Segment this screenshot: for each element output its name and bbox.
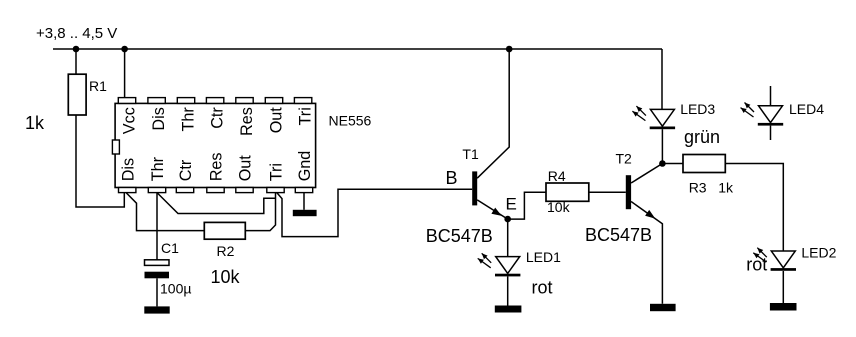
wire T2 emitter xyxy=(631,202,662,304)
svg-text:1k: 1k xyxy=(25,113,45,133)
wire Dis(bottom) down to R2 left xyxy=(126,193,204,231)
wire stub below LED4 xyxy=(770,126,772,140)
svg-text:10k: 10k xyxy=(211,267,241,287)
wire rail to Vcc pin xyxy=(124,49,126,98)
svg-text:Out: Out xyxy=(237,155,255,182)
svg-text:R3 1k: R3 1k xyxy=(689,179,734,195)
wire E node to R4 xyxy=(508,192,546,219)
ground symbol below T2 xyxy=(650,304,676,311)
svg-text:LED2: LED2 xyxy=(801,245,836,261)
svg-text:Tri: Tri xyxy=(297,107,315,125)
IC pin-1 notch marker xyxy=(112,140,119,154)
svg-text:Thr: Thr xyxy=(180,107,198,132)
wire R1 bottom to IC pin Dis (bottom row pin 1) xyxy=(76,115,124,207)
svg-text:rot: rot xyxy=(746,254,767,274)
wire Thr(bottom) link to Tri(bottom) xyxy=(157,193,276,214)
wire positive supply rail xyxy=(53,48,662,50)
ground symbol below LED1 xyxy=(495,306,522,313)
wire T1 collector xyxy=(477,49,509,178)
svg-text:LED3: LED3 xyxy=(680,101,715,117)
svg-text:Vcc: Vcc xyxy=(121,107,139,134)
svg-text:LED4: LED4 xyxy=(789,101,824,117)
svg-text:E: E xyxy=(506,195,517,214)
wire T1 emitter xyxy=(477,200,508,219)
svg-text:100µ: 100µ xyxy=(160,280,191,296)
IC bottom pin stub Dis xyxy=(119,188,136,193)
wire LED3 to T2 collector node xyxy=(661,129,663,163)
svg-text:Tri: Tri xyxy=(268,163,286,181)
capacitor C1 bottom plate xyxy=(145,272,170,279)
transistor T2 base bar xyxy=(626,175,631,209)
resistor R3 xyxy=(683,155,725,173)
IC bottom pin stub Tri xyxy=(267,188,284,193)
IC bottom pin stub Thr xyxy=(148,188,165,193)
svg-text:Ctr: Ctr xyxy=(177,159,195,181)
IC bottom pin stub Res xyxy=(207,188,224,193)
svg-text:rot: rot xyxy=(532,278,553,298)
led LED4 xyxy=(759,106,783,123)
svg-text:T2: T2 xyxy=(616,150,633,166)
wire LED2 to ground xyxy=(782,271,784,303)
IC top pin stub Ctr xyxy=(206,98,223,104)
ground symbol at IC Gnd pin xyxy=(293,210,317,216)
led LED1 xyxy=(496,257,520,274)
svg-text:T1: T1 xyxy=(462,146,479,162)
svg-text:BC547B: BC547B xyxy=(585,225,652,245)
IC bottom pin stub Out xyxy=(236,188,253,193)
wire C1 to ground xyxy=(156,278,158,306)
svg-text:BC547B: BC547B xyxy=(426,226,493,246)
svg-text:R1: R1 xyxy=(89,78,107,94)
wire R4 to T2 base xyxy=(589,191,626,193)
svg-text:C1: C1 xyxy=(161,240,179,256)
capacitor C1 top plate xyxy=(145,260,170,266)
IC top pin stub Tri xyxy=(294,98,311,104)
transistor T1 base bar xyxy=(472,171,477,205)
wire Tri(bottom) to T1 base xyxy=(277,189,472,236)
ground symbol below C1 xyxy=(144,306,169,313)
wire E node to LED1 xyxy=(507,219,509,256)
resistor R4 xyxy=(546,183,589,201)
svg-text:Dis: Dis xyxy=(119,158,137,181)
svg-text:B: B xyxy=(446,168,458,188)
svg-text:Dis: Dis xyxy=(150,107,168,130)
svg-text:Thr: Thr xyxy=(149,156,167,181)
resistor R1 xyxy=(68,74,86,115)
wire R3 to LED2 xyxy=(725,164,783,252)
svg-text:10k: 10k xyxy=(547,199,571,215)
svg-text:Out: Out xyxy=(268,107,286,134)
arrowhead T2 emitter xyxy=(645,210,655,219)
node junction dot R1/rail xyxy=(73,46,80,53)
wire Thr(bottom) to C1 xyxy=(156,193,158,260)
IC bottom pin stub Gnd xyxy=(295,188,312,193)
svg-text:+3,8 .. 4,5 V: +3,8 .. 4,5 V xyxy=(36,25,117,42)
svg-text:Ctr: Ctr xyxy=(209,107,227,129)
IC bottom pin stub Ctr xyxy=(176,188,193,193)
svg-text:grün: grün xyxy=(684,127,720,147)
op IC U1 NE556 body xyxy=(115,103,316,187)
IC top pin stub Dis xyxy=(148,98,165,104)
node junction dot Vcc/rail xyxy=(121,46,128,53)
wire LED1 to ground xyxy=(507,277,509,306)
arrowhead T1 emitter xyxy=(491,208,501,216)
svg-text:R2: R2 xyxy=(217,243,235,259)
svg-text:Res: Res xyxy=(238,107,256,136)
svg-text:NE556: NE556 xyxy=(329,113,372,129)
wire Tri(bottom) down to R2 right xyxy=(245,193,275,231)
led LED3 xyxy=(650,109,674,126)
node junction dot E node xyxy=(504,216,511,223)
IC top pin stub Thr xyxy=(177,98,194,104)
node junction dot T2 collector node xyxy=(659,160,666,167)
svg-text:R4: R4 xyxy=(548,168,566,184)
led LED2 xyxy=(771,251,795,268)
ground symbol below LED2 xyxy=(770,303,797,311)
wire rail drop to LED3 xyxy=(661,49,663,109)
svg-text:LED1: LED1 xyxy=(526,249,561,265)
wire Gnd pin to ground xyxy=(303,193,305,210)
wire T2 collector node to R3 xyxy=(662,163,683,165)
svg-text:Gnd: Gnd xyxy=(296,151,314,182)
IC top pin stub Out xyxy=(265,98,282,104)
resistor R2 xyxy=(204,222,245,239)
wire rail to R1 top xyxy=(75,49,77,74)
svg-text:Res: Res xyxy=(208,153,226,182)
wire stub above LED4 xyxy=(770,86,772,106)
IC top pin stub Res xyxy=(236,98,253,104)
node junction dot T1 collector/rail xyxy=(506,46,513,53)
wire T2 collector xyxy=(631,164,662,184)
IC top pin stub Vcc xyxy=(118,98,135,104)
